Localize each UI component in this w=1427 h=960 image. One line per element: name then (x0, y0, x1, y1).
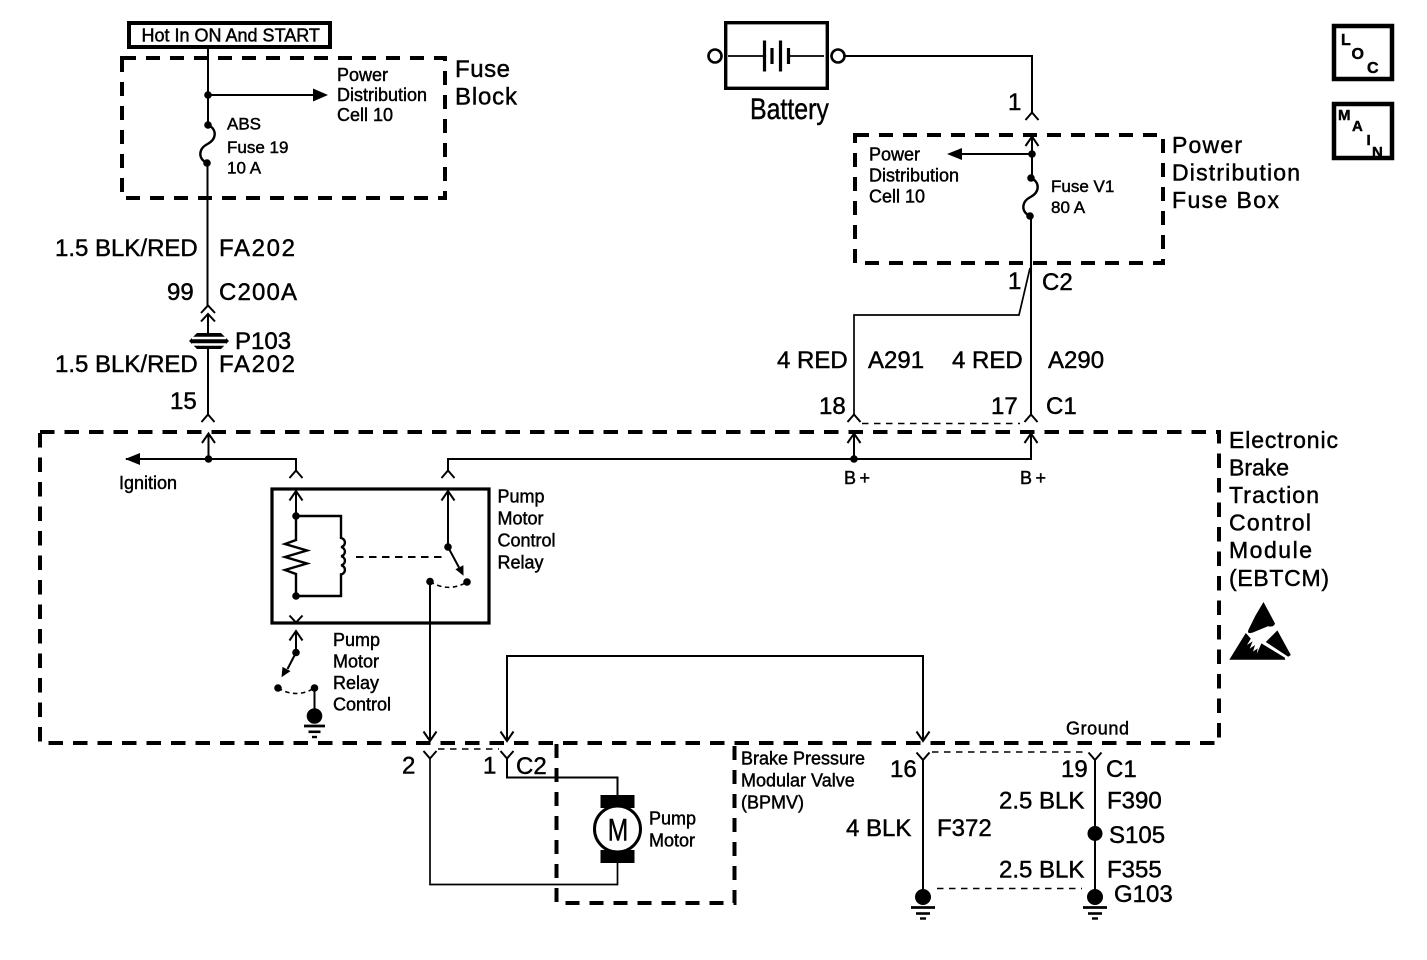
svg-text:Traction: Traction (1229, 482, 1319, 508)
SECTION: EBTCM module (40, 427, 1338, 743)
wire to EBTCM pin 15 (207, 349, 209, 415)
svg-text:2.5 BLK: 2.5 BLK (999, 788, 1084, 815)
svg-text:M: M (608, 812, 628, 848)
wire from switch pole down to pin 2 (429, 582, 431, 741)
svg-text:Electronic: Electronic (1229, 427, 1338, 453)
svg-text:Pump: Pump (498, 487, 545, 507)
internal ground (314, 688, 316, 709)
pump motor M (601, 795, 635, 808)
svg-text:FA202: FA202 (219, 351, 295, 378)
svg-text:A290: A290 (1048, 347, 1104, 374)
connector C2 dashed tie line (438, 748, 499, 750)
relay coil-side pin fork (290, 471, 303, 479)
node junction dot (205, 455, 213, 463)
svg-text:Fuse 19: Fuse 19 (227, 138, 288, 157)
svg-text:10 A: 10 A (227, 159, 262, 178)
wire F390/F355 pin19 to ground (1094, 760, 1096, 890)
pin 2 connector fork (424, 751, 437, 759)
SECTION: bottom BPMV and grounds (402, 744, 1173, 919)
pin 15 connector fork (202, 415, 215, 423)
svg-text:Control: Control (1229, 510, 1311, 536)
svg-text:C1: C1 (1046, 393, 1077, 420)
BPMV dashed box (557, 744, 735, 903)
fuse V1 80 A (1031, 154, 1033, 177)
resistor (coil suppression) (285, 516, 307, 596)
node control switch dot (292, 649, 300, 657)
LOC box (1334, 26, 1392, 79)
svg-text:Brake: Brake (1229, 455, 1289, 481)
Power Distribution Fuse Box dashed box (855, 135, 1163, 263)
node control contact dots (274, 684, 282, 692)
pin 19 connector fork (1089, 753, 1102, 761)
svg-text:Brake Pressure: Brake Pressure (741, 749, 865, 769)
svg-text:2: 2 (402, 753, 415, 780)
svg-text:Distribution: Distribution (869, 166, 959, 186)
wire pin 1 to motor (507, 759, 618, 796)
svg-text:ABS: ABS (227, 115, 261, 134)
ground symbol right G103 (1087, 889, 1103, 905)
svg-text:4 RED: 4 RED (777, 347, 848, 374)
svg-text:15: 15 (170, 388, 197, 415)
relay switch-side pin fork (442, 471, 455, 479)
battery cell symbol (728, 55, 763, 57)
svg-text:19: 19 (1061, 756, 1088, 783)
pin 1 connector fork (1026, 113, 1039, 121)
pin 2 exit arrow (424, 732, 437, 742)
svg-text:99: 99 (167, 279, 194, 306)
wire arrow to Power Distribution Cell 10 (208, 94, 314, 96)
fuse F19 ABS 10A (204, 121, 212, 129)
svg-text:Ignition: Ignition (119, 473, 177, 493)
svg-text:Pump: Pump (333, 630, 380, 650)
svg-text:F390: F390 (1107, 788, 1162, 815)
pin 18 entry arrow (848, 434, 861, 444)
svg-text:FA202: FA202 (219, 235, 295, 262)
B+ bus wire (448, 434, 1031, 471)
wire pin 2 to motor bottom (430, 759, 618, 885)
svg-text:M: M (1338, 107, 1351, 124)
SECTION: battery and power distribution fuse box (709, 23, 1301, 424)
svg-text:Motor: Motor (498, 509, 544, 529)
svg-text:Power: Power (337, 65, 388, 85)
pin 18 connector fork (848, 415, 861, 423)
ignition bus wire (126, 459, 296, 471)
svg-text:18: 18 (819, 393, 846, 420)
SECTION: LOC MAIN boxes (1334, 26, 1392, 161)
svg-text:L: L (1341, 32, 1351, 49)
svg-text:16: 16 (890, 756, 917, 783)
pin 1 entry arrow (1026, 137, 1039, 147)
pump motor control relay box (272, 489, 489, 623)
svg-text:Power: Power (869, 145, 920, 165)
node junction dot (1028, 150, 1036, 158)
svg-text:Ground: Ground (1066, 719, 1129, 739)
svg-text:Motor: Motor (333, 652, 379, 672)
svg-text:C200A: C200A (219, 279, 297, 306)
wire FA202 down to C200A (207, 163, 209, 306)
wire from Hot In box down (207, 49, 209, 95)
pin 17 connector fork (1025, 415, 1038, 423)
svg-text:4 RED: 4 RED (952, 347, 1023, 374)
internal wire pin 1 to pin 16 (507, 656, 923, 741)
svg-text:Power: Power (1172, 132, 1242, 158)
svg-text:Distribution: Distribution (337, 85, 427, 105)
ground tie dashed line (937, 888, 1082, 890)
svg-text:Relay: Relay (498, 553, 544, 573)
wire (207, 314, 209, 333)
svg-text:Distribution: Distribution (1172, 160, 1300, 186)
wire A290 from fuse to pin 17 (1030, 216, 1032, 415)
wire F372 pin16 to ground (922, 760, 924, 890)
ESD symbol (1229, 602, 1291, 660)
svg-text:(EBTCM): (EBTCM) (1229, 565, 1329, 591)
svg-text:80 A: 80 A (1051, 198, 1086, 217)
node junction dot (204, 91, 212, 99)
Ignition arrow (125, 453, 140, 465)
svg-text:F372: F372 (937, 815, 992, 842)
svg-text:2.5 BLK: 2.5 BLK (999, 857, 1084, 884)
svg-text:Modular Valve: Modular Valve (741, 771, 855, 791)
MAIN box (1334, 104, 1392, 158)
svg-text:(BPMV): (BPMV) (741, 793, 804, 813)
svg-text:Control: Control (498, 531, 556, 551)
relay control switch arrow up (290, 631, 303, 641)
pin 15 entry arrow (202, 434, 215, 444)
wire branch A291 to pin 18 (854, 268, 1030, 415)
svg-text:Block: Block (455, 84, 518, 111)
svg-text:I: I (1367, 132, 1371, 149)
splice S105 (1088, 826, 1103, 841)
svg-text:C1: C1 (1106, 756, 1137, 783)
EBTCM dashed box (40, 432, 1219, 743)
Hot In ON And START box (129, 23, 330, 47)
Fuse Block dashed box (122, 58, 445, 198)
pin 17 entry arrow (1025, 434, 1038, 444)
connector C200A symbol (201, 306, 215, 314)
SECTION: relay (272, 471, 930, 742)
node junction dot (292, 512, 300, 520)
svg-text:O: O (1352, 46, 1364, 63)
SECTION: top-left fuse block (55, 23, 518, 422)
svg-text:Module: Module (1229, 537, 1312, 563)
svg-text:Battery: Battery (750, 92, 829, 126)
ground symbol left (915, 889, 931, 905)
svg-text:Cell 10: Cell 10 (337, 105, 393, 125)
switch pin entry arrow (442, 491, 455, 501)
svg-text:A: A (1352, 118, 1363, 135)
node junction dot (850, 455, 858, 463)
svg-text:1: 1 (483, 753, 496, 780)
svg-text:F355: F355 (1107, 857, 1162, 884)
pin 1 connector fork (501, 751, 514, 759)
svg-text:Motor: Motor (649, 831, 695, 851)
battery terminal left (709, 50, 722, 63)
svg-text:N: N (1372, 144, 1383, 161)
svg-text:Pump: Pump (649, 809, 696, 829)
wire (207, 95, 209, 124)
svg-text:Relay: Relay (333, 673, 379, 693)
control switch blade with arrow (288, 653, 297, 670)
svg-text:G103: G103 (1114, 881, 1173, 908)
svg-text:C2: C2 (1042, 269, 1073, 296)
switch blade with arrow (448, 547, 459, 568)
relay coil (296, 516, 345, 596)
relay control pin fork (box bottom) (290, 616, 303, 623)
wire battery to fuse box (845, 56, 1033, 113)
arrow to Power Distribution Cell 10 (961, 153, 1032, 155)
svg-text:Hot In ON And START: Hot In ON And START (142, 26, 320, 46)
pin 16 connector fork (917, 753, 930, 761)
battery terminal right (832, 50, 845, 63)
connector C1 dashed tie line (862, 423, 1020, 425)
dashed contact arc (278, 688, 315, 694)
svg-text:Fuse: Fuse (455, 56, 510, 83)
splice pack P103 (189, 333, 229, 349)
pin 16 exit arrow (917, 732, 930, 742)
svg-text:1: 1 (1008, 268, 1021, 295)
dashed contact arc (430, 582, 467, 588)
svg-text:Fuse Box: Fuse Box (1172, 187, 1280, 213)
svg-text:Fuse V1: Fuse V1 (1051, 177, 1114, 196)
svg-text:1.5 BLK/RED: 1.5 BLK/RED (55, 235, 198, 262)
node switch contact dots (426, 578, 434, 586)
svg-text:17: 17 (991, 393, 1018, 420)
node junction dot (292, 592, 300, 600)
svg-text:Cell 10: Cell 10 (869, 187, 925, 207)
svg-text:1.5 BLK/RED: 1.5 BLK/RED (55, 351, 198, 378)
svg-text:1: 1 (1008, 89, 1021, 116)
svg-text:A291: A291 (868, 347, 924, 374)
node switch common dot (444, 543, 452, 551)
svg-text:S105: S105 (1109, 822, 1165, 849)
svg-text:C2: C2 (516, 753, 547, 780)
coil pin entry arrow (290, 491, 303, 501)
pin 1 exit arrow (501, 732, 514, 742)
svg-text:4 BLK: 4 BLK (846, 815, 911, 842)
svg-text:C: C (1367, 60, 1379, 77)
relay actuation dashed link (356, 556, 444, 558)
svg-text:Control: Control (333, 695, 391, 715)
battery box (726, 23, 828, 89)
connector C1 dashed tie line (932, 751, 1087, 753)
